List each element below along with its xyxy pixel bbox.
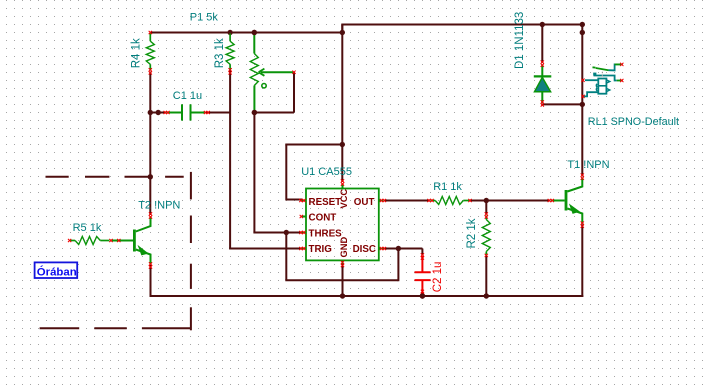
- svg-text:RL1 SPNO-Default: RL1 SPNO-Default: [588, 116, 679, 128]
- svg-text:C2 1u: C2 1u: [432, 262, 444, 293]
- svg-text:P1 5k: P1 5k: [190, 11, 219, 23]
- svg-text:DISC: DISC: [353, 244, 376, 255]
- svg-text:R2 1k: R2 1k: [466, 218, 478, 248]
- svg-text:VCC: VCC: [339, 189, 349, 209]
- svg-text:OUT: OUT: [354, 197, 375, 208]
- svg-text:T2 !NPN: T2 !NPN: [138, 199, 180, 211]
- svg-text:Órában: Órában: [37, 265, 77, 278]
- svg-text:U1 CA555: U1 CA555: [301, 166, 352, 178]
- svg-text:RESET: RESET: [309, 197, 342, 208]
- svg-text:GND: GND: [339, 237, 349, 258]
- svg-text:TRIG: TRIG: [309, 244, 333, 255]
- svg-text:R4 1k: R4 1k: [130, 38, 142, 68]
- svg-text:D1 1N1133: D1 1N1133: [514, 12, 526, 69]
- svg-text:CONT: CONT: [309, 213, 337, 224]
- svg-text:R5 1k: R5 1k: [73, 222, 102, 234]
- svg-text:T1 !NPN: T1 !NPN: [567, 159, 609, 171]
- svg-text:R1 1k: R1 1k: [433, 181, 462, 193]
- svg-text:THRES: THRES: [309, 229, 343, 240]
- svg-text:C1 1u: C1 1u: [173, 90, 202, 102]
- svg-text:R3 1k: R3 1k: [214, 38, 226, 68]
